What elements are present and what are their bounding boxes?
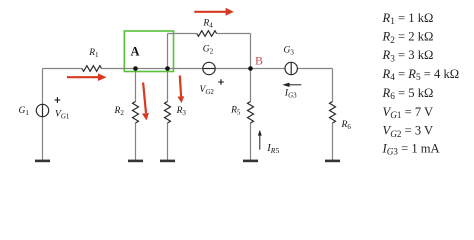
svg-text:VG2 = 3 V: VG2 = 3 V — [383, 124, 434, 140]
svg-text:R6 = 5 kΩ: R6 = 5 kΩ — [382, 86, 434, 102]
svg-text:R4 = R5 = 4 kΩ: R4 = R5 = 4 kΩ — [382, 67, 460, 83]
svg-text:R1: R1 — [88, 48, 99, 59]
svg-text:IR5: IR5 — [266, 143, 279, 155]
svg-text:R6: R6 — [341, 120, 352, 131]
svg-text:G2: G2 — [203, 45, 214, 56]
svg-text:B: B — [255, 54, 263, 68]
svg-text:R5: R5 — [230, 106, 241, 117]
svg-text:VG2: VG2 — [200, 85, 215, 96]
svg-text:R3 = 3 kΩ: R3 = 3 kΩ — [382, 48, 434, 64]
svg-text:R1 = 1 kΩ: R1 = 1 kΩ — [382, 11, 434, 27]
svg-text:VG1 = 7 V: VG1 = 7 V — [383, 105, 434, 121]
svg-text:A: A — [131, 45, 140, 59]
svg-text:G1: G1 — [19, 106, 30, 117]
svg-text:R2 = 2 kΩ: R2 = 2 kΩ — [382, 30, 434, 46]
svg-text:R4: R4 — [202, 19, 213, 30]
svg-text:G3: G3 — [284, 46, 295, 57]
svg-text:IG3 = 1 mA: IG3 = 1 mA — [382, 141, 440, 157]
svg-text:R3: R3 — [176, 106, 187, 117]
svg-text:R2: R2 — [114, 106, 125, 117]
svg-text:VG1: VG1 — [55, 110, 70, 121]
svg-text:IG3: IG3 — [284, 89, 297, 100]
